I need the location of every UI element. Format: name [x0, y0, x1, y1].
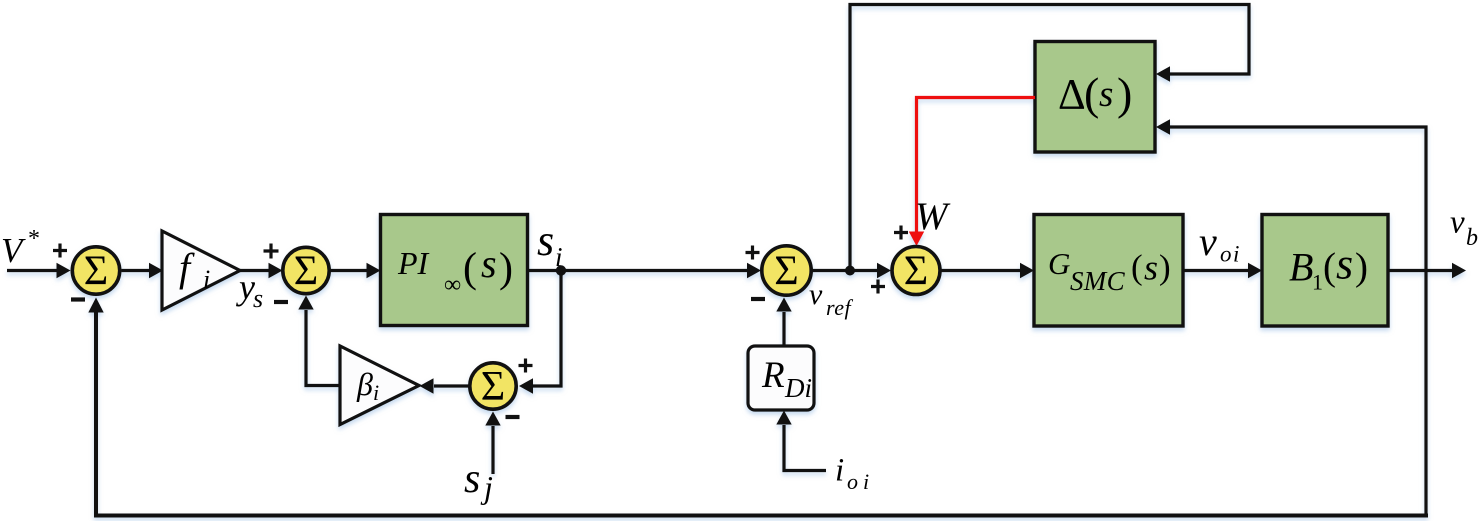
- wire vb feedback to Delta lower input: [1156, 119, 1426, 270]
- label v_oi: [1199, 219, 1241, 267]
- block PI_inf(s): [381, 215, 528, 326]
- label G_SMC(s): [1048, 246, 1171, 296]
- minus sign at S4 bottom: [751, 297, 765, 301]
- svg-text:Di: Di: [784, 373, 812, 403]
- svg-text:i: i: [555, 242, 563, 272]
- svg-text:s: s: [1099, 74, 1113, 115]
- summing junction S5: [892, 247, 940, 295]
- svg-text:G: G: [1048, 246, 1070, 281]
- svg-text:s: s: [253, 284, 263, 313]
- wire sj input to S3: [485, 412, 500, 475]
- svg-text:(: (: [1131, 248, 1143, 287]
- label PI_inf(s): [397, 241, 513, 298]
- label v_b: [1450, 205, 1478, 252]
- summing junction S3: [470, 363, 516, 410]
- svg-text:Σ: Σ: [774, 249, 798, 295]
- svg-text:Σ: Σ: [481, 364, 505, 410]
- wire i_oi input to R_Di: [776, 411, 826, 471]
- svg-text:(: (: [463, 246, 477, 292]
- svg-text:ref: ref: [826, 295, 854, 320]
- wire S4 to S5 with node: [811, 263, 891, 278]
- svg-text:i: i: [863, 469, 869, 494]
- svg-text:SMC: SMC: [1070, 266, 1126, 296]
- svg-text:1: 1: [1312, 269, 1323, 294]
- svg-text:(: (: [1084, 68, 1099, 119]
- label W: [915, 195, 951, 238]
- svg-text:b: b: [1466, 225, 1478, 251]
- summing junction S2: [283, 247, 329, 294]
- svg-text:i: i: [835, 453, 844, 489]
- plus sign at S2: [264, 244, 279, 259]
- svg-text:W: W: [915, 195, 951, 238]
- svg-text:s: s: [1336, 240, 1353, 289]
- minus sign at S3 bottom: [506, 415, 520, 419]
- label s_j: [464, 456, 493, 505]
- wire bottom feedback vb to S1: [88, 271, 1428, 516]
- label i_oi: [835, 453, 869, 495]
- block R_Di: [748, 346, 814, 410]
- svg-text:β: β: [356, 366, 373, 402]
- svg-text:v: v: [1450, 205, 1465, 241]
- wire S2 to PI block: [330, 263, 381, 278]
- block Delta(s): [1035, 42, 1155, 153]
- label s_i: [537, 216, 563, 272]
- svg-text:s: s: [537, 216, 554, 265]
- minus sign at S1 bottom: [71, 297, 85, 301]
- svg-text:): ): [499, 246, 513, 292]
- svg-text:Δ: Δ: [1058, 72, 1086, 119]
- svg-text:): ): [1117, 68, 1132, 119]
- red wire Delta to S5 (W): [909, 98, 1035, 247]
- node si dot: [556, 265, 566, 275]
- svg-text:(: (: [1323, 246, 1336, 289]
- svg-text:∞: ∞: [444, 272, 461, 298]
- svg-text:R: R: [761, 355, 785, 396]
- node at 850: [845, 266, 855, 276]
- svg-text:s: s: [464, 456, 480, 502]
- plus sign at S1: [53, 244, 67, 258]
- svg-text:o: o: [847, 469, 858, 494]
- svg-text:i: i: [373, 380, 379, 405]
- svg-text:): ): [1355, 246, 1368, 289]
- wire node up over to Delta right top input: [850, 5, 1249, 271]
- wire f_i to S2: [240, 263, 283, 278]
- svg-text:s: s: [1144, 248, 1158, 288]
- wire PI to S4 with node si: [528, 263, 761, 278]
- wire S1 to f_i: [122, 263, 164, 278]
- wire input V* to S1: [7, 263, 71, 278]
- block G_SMC(s): [1034, 215, 1183, 327]
- label f_i: [179, 245, 210, 294]
- plus sign at S3: [519, 359, 533, 373]
- svg-text:*: *: [28, 226, 40, 252]
- svg-text:V: V: [1, 231, 26, 270]
- svg-text:B: B: [1289, 245, 1313, 290]
- gain triangle f_i: [162, 231, 240, 310]
- svg-text:PI: PI: [397, 245, 430, 281]
- wire B_1 to output vb: [1388, 263, 1466, 278]
- label B_1(s): [1289, 240, 1368, 295]
- minus sign at S2 bottom: [274, 300, 288, 304]
- svg-text:i: i: [203, 265, 210, 294]
- wire branch si down to S3: [519, 271, 561, 394]
- gain triangle beta_i: [340, 346, 419, 425]
- svg-text:oi: oi: [1220, 242, 1241, 267]
- label R_Di: [761, 355, 812, 403]
- svg-text:v: v: [1199, 219, 1217, 264]
- plus sign at S5 top: [894, 226, 908, 240]
- wire S3 to beta_i: [420, 378, 470, 393]
- label Delta(s): [1058, 68, 1132, 119]
- svg-text:j: j: [480, 469, 493, 505]
- label v_ref: [809, 278, 854, 320]
- svg-text:): ): [1159, 248, 1171, 287]
- block B_1(s): [1262, 215, 1388, 327]
- label beta_i: [356, 366, 379, 405]
- wire beta_i output up to S2: [298, 296, 340, 386]
- svg-text:Σ: Σ: [904, 249, 928, 295]
- label V*: [1, 226, 40, 270]
- summing junction S1: [72, 247, 119, 295]
- plus sign at S5 left bottom: [871, 280, 885, 294]
- plus sign at S4: [746, 246, 760, 260]
- label y_s: [236, 267, 263, 313]
- summing junction S4 vref: [762, 246, 811, 295]
- wire G_SMC to B_1: [1183, 263, 1262, 278]
- svg-text:v: v: [809, 278, 823, 311]
- wire R_Di to S4: [776, 298, 791, 346]
- svg-text:Σ: Σ: [294, 249, 318, 295]
- svg-text:Σ: Σ: [84, 249, 108, 295]
- svg-text:s: s: [481, 241, 497, 286]
- wire S5 to G_SMC: [940, 263, 1034, 278]
